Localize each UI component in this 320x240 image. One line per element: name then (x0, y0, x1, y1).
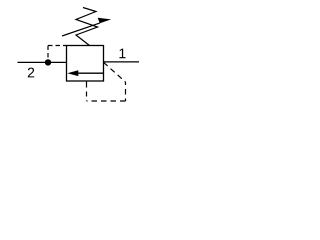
port label 1 (119, 49, 125, 59)
pilot line (dashed) from junction to valve top-left (47, 46, 49, 60)
spring (zigzag) on top of valve (76, 8, 98, 46)
flow-path arrow inside valve (points left) (77, 72, 104, 74)
wire: left main line (port 2) (18, 61, 67, 63)
drain line (dashed) from port-1 node around bottom to valve bottom (104, 62, 126, 82)
valve body square V1 (67, 46, 104, 82)
wire: right main line (port 1) (104, 61, 140, 63)
port label 2 (28, 68, 34, 78)
junction dot (45, 59, 51, 65)
adjustability arrow across spring (62, 23, 100, 36)
